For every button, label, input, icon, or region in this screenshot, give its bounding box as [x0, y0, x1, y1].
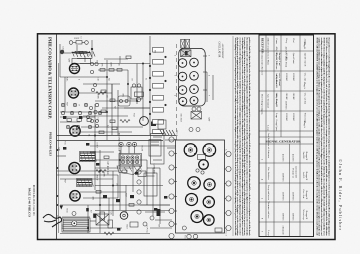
- svg-text:7C6: 7C6: [64, 141, 66, 144]
- svg-text:T2: T2: [90, 210, 92, 212]
- svg-text:2.2: 2.2: [107, 125, 109, 128]
- svg-text:2ND IF: 2ND IF: [96, 174, 98, 181]
- svg-text:1500 KC: 1500 KC: [292, 113, 294, 122]
- svg-text:1580 KC: 1580 KC: [282, 173, 285, 182]
- svg-text:Osc. Section: Osc. Section: [267, 167, 270, 180]
- svg-text:C1: C1: [80, 36, 82, 38]
- svg-text:Quiet Point: Quiet Point: [292, 53, 294, 64]
- svg-text:470K: 470K: [97, 94, 99, 99]
- svg-text:C8: C8: [131, 78, 133, 80]
- svg-text:6: 6: [208, 75, 210, 76]
- svg-text:1500 KC: 1500 KC: [285, 101, 288, 110]
- svg-text:Allied Connections to Plate: Allied Connections to Plate: [267, 37, 270, 65]
- svg-text:5: 5: [208, 55, 210, 56]
- svg-text:Freq.: Freq.: [285, 39, 288, 44]
- svg-text:.05: .05: [118, 63, 120, 66]
- svg-text:Pointer at: Pointer at: [292, 168, 295, 178]
- svg-text:1st I.F.: 1st I.F.: [302, 172, 305, 179]
- svg-text:Ant. Terminal: Ant. Terminal: [267, 94, 270, 108]
- svg-text:460, Plate 71: 460, Plate 71: [275, 75, 278, 89]
- svg-text:PHILCO RADIO & TELEVISION CORP: PHILCO RADIO & TELEVISION CORP.: [48, 37, 53, 119]
- svg-text:455 KC: 455 KC: [282, 154, 285, 162]
- svg-text:C14: C14: [97, 117, 99, 120]
- svg-text:455 KC: 455 KC: [292, 154, 295, 162]
- svg-text:Loop and wave: Loop and wave: [267, 185, 270, 201]
- svg-text:Osc. Ant.: Osc. Ant.: [302, 189, 305, 199]
- svg-text:56: 56: [88, 134, 90, 136]
- svg-text:7A8: 7A8: [133, 113, 136, 116]
- svg-text:Range II: Range II: [305, 191, 308, 200]
- svg-text:Ant. Sections of Antenna: Ant. Sections of Antenna: [267, 133, 270, 159]
- svg-text:1: 1: [196, 237, 198, 238]
- svg-text:7A8: 7A8: [88, 52, 91, 55]
- svg-text:OSCILLATOR: OSCILLATOR: [218, 42, 221, 58]
- svg-text:Trimmer and osc.: Trimmer and osc.: [267, 201, 270, 219]
- svg-text:Range II: Range II: [305, 211, 308, 220]
- svg-text:S1: S1: [145, 78, 147, 80]
- svg-text:Plug B: Plug B: [303, 42, 306, 49]
- svg-text:RECEIVER: RECEIVER: [260, 38, 264, 54]
- svg-text:FIG: FIG: [184, 235, 186, 239]
- svg-text:454, 546, 4.6, 1.62: 454, 546, 4.6, 1.62: [275, 47, 278, 67]
- svg-text:R4: R4: [108, 78, 110, 80]
- svg-text:7: 7: [208, 95, 210, 96]
- svg-text:Gang Open: Gang Open: [275, 119, 278, 131]
- svg-text:Osc. set dial: Osc. set dial: [303, 93, 305, 105]
- svg-text:LOOP: LOOP: [74, 38, 80, 40]
- svg-text:Connection to Receiver: Connection to Receiver: [261, 54, 263, 76]
- svg-text:SW: SW: [158, 224, 160, 227]
- svg-text:35Z3: 35Z3: [126, 224, 128, 228]
- svg-text:Dial: Dial: [292, 39, 294, 43]
- svg-text:Loop: Loop: [275, 113, 277, 119]
- svg-text:Dial Setting Compens.: Dial Setting Compens.: [261, 94, 264, 115]
- svg-text:RECORD CHANGER: RECORD CHANGER: [118, 133, 121, 152]
- svg-text:1500 KC: 1500 KC: [285, 73, 287, 82]
- svg-text:Osc. Ant.: Osc. Ant.: [303, 73, 306, 82]
- svg-text:117V AC: 117V AC: [146, 225, 149, 233]
- svg-text:W1: W1: [154, 50, 156, 53]
- svg-text:Wave trap: Wave trap: [302, 209, 305, 220]
- svg-text:Loop: Loop: [267, 125, 270, 131]
- svg-text:these padders are reached thro: these padders are reached through holes …: [328, 38, 331, 236]
- svg-text:580 KC: 580 KC: [282, 213, 285, 221]
- svg-text:6: 6: [78, 79, 80, 80]
- svg-text:LOOP: LOOP: [62, 46, 64, 52]
- svg-text:Loop: Loop: [267, 230, 270, 236]
- svg-text:.05: .05: [116, 183, 118, 186]
- svg-text:580 KC: 580 KC: [292, 93, 294, 101]
- svg-text:C10: C10: [97, 77, 99, 80]
- svg-text:Range II: Range II: [305, 172, 308, 181]
- svg-text:455, Plate 81: 455, Plate 81: [275, 94, 278, 108]
- svg-text:.01: .01: [106, 95, 108, 98]
- svg-text:2: 2: [174, 55, 176, 56]
- svg-text:4: 4: [174, 95, 176, 96]
- svg-text:33: 33: [96, 60, 98, 62]
- svg-text:ADJUSTMENT: ADJUSTMENT: [221, 44, 224, 60]
- svg-text:OSC: OSC: [122, 93, 124, 98]
- svg-text:Plug A: Plug A: [303, 121, 306, 128]
- svg-text:7B7: 7B7: [66, 102, 68, 105]
- svg-text:1500 KC: 1500 KC: [282, 192, 285, 201]
- svg-text:PILOT: PILOT: [141, 145, 143, 151]
- svg-text:Range II: Range II: [305, 152, 308, 161]
- svg-text:MODEL 46-1213, Code 121: MODEL 46-1213, Code 121: [32, 185, 35, 216]
- svg-text:extreme left: extreme left: [295, 166, 298, 178]
- svg-text:1500 KC: 1500 KC: [292, 73, 294, 82]
- svg-text:OSC PAD: OSC PAD: [180, 113, 183, 122]
- svg-text:C24: C24: [110, 211, 112, 214]
- svg-text:FIG. 2: FIG. 2: [176, 130, 178, 135]
- svg-text:FIG. 3: FIG. 3: [225, 230, 227, 235]
- svg-text:padders should be adjusted in: padders should be adjusted in the order …: [248, 38, 251, 236]
- svg-text:7B7: 7B7: [64, 179, 66, 182]
- svg-text:C20: C20: [58, 147, 60, 150]
- svg-text:3: 3: [174, 75, 176, 76]
- svg-text:SPKR: SPKR: [61, 224, 63, 230]
- svg-text:1500 KC: 1500 KC: [285, 113, 287, 122]
- svg-text:455 KC, Quiet Point: 455 KC, Quiet Point: [285, 47, 288, 68]
- svg-text:2nd I.F.: 2nd I.F.: [302, 152, 305, 160]
- svg-text:1ST IF: 1ST IF: [96, 142, 98, 148]
- svg-text:220K: 220K: [110, 62, 112, 67]
- svg-text:Plug A: Plug A: [303, 82, 306, 89]
- svg-text:47K: 47K: [101, 63, 103, 67]
- svg-text:Conn.: Conn.: [275, 39, 277, 45]
- svg-text:PAGE 12-46 PHILCO: PAGE 12-46 PHILCO: [28, 188, 32, 218]
- svg-text:35A5: 35A5: [66, 208, 69, 212]
- svg-text:580 KC: 580 KC: [292, 213, 295, 221]
- svg-text:obtained: obtained: [282, 226, 285, 235]
- svg-text:2nd I.F. 1st I.F.: 2nd I.F. 1st I.F.: [303, 53, 305, 67]
- svg-text:PHILCO 46-1213: PHILCO 46-1213: [48, 132, 52, 156]
- svg-text:1500 KC: 1500 KC: [292, 192, 295, 201]
- svg-text:470K: 470K: [103, 172, 105, 177]
- svg-text:580 KC: 580 KC: [285, 93, 287, 101]
